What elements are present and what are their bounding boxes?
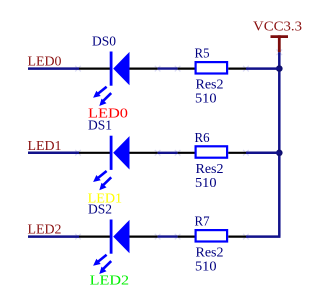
LED DS1 cathode bar (110, 136, 113, 170)
power symbol VCC3.3 (253, 20, 302, 53)
LED DS1 emission arrow 1 (93, 171, 107, 182)
svg-text:R7: R7 (195, 215, 210, 230)
svg-text:510: 510 (195, 260, 217, 275)
LED DS0 pin 1 (130, 67, 158, 69)
node junction row2 (276, 150, 283, 157)
resistor R7 pin 2 (178, 236, 195, 238)
wire row1 to bus (246, 67, 281, 70)
wire row3 to bus (246, 235, 281, 238)
resistor R7 (196, 230, 228, 241)
svg-text:Res2: Res2 (196, 78, 224, 93)
svg-text:R5: R5 (195, 47, 210, 62)
wire LED0 (28, 67, 79, 70)
resistor R6 pin 2 (178, 152, 195, 154)
LED DS2 emission arrow 1 (93, 255, 107, 266)
LED DS0 emission arrow 2 (99, 93, 111, 106)
svg-text:510: 510 (195, 92, 217, 107)
LED DS1 emission arrow 2 (99, 177, 111, 190)
wire vertical bus VCC (278, 52, 281, 236)
svg-text:Res2: Res2 (196, 246, 224, 261)
svg-text:Res2: Res2 (196, 162, 224, 177)
LED DS0 triangle (113, 52, 129, 85)
LED DS2 cathode bar (110, 220, 113, 254)
resistor R6 (196, 146, 228, 157)
LED DS2 pin 2 (79, 236, 110, 238)
node vertex markers (faint grid crosses) (75, 50, 282, 240)
LED DS1 pin 2 (79, 152, 110, 154)
svg-text:DS1: DS1 (88, 119, 112, 134)
LED DS2 emission arrow 2 (99, 261, 111, 274)
LED DS0 emission arrow 1 (93, 87, 107, 98)
wire LED2 to R7 (158, 235, 178, 237)
wire LED0 to R5 (158, 67, 178, 69)
LED DS2 triangle (113, 220, 129, 253)
LED DS2 pin 1 (130, 236, 158, 238)
LED DS0 cathode bar (110, 52, 113, 86)
wire LED1 to R6 (158, 152, 178, 154)
wire LED1 (28, 152, 79, 155)
LED DS1 triangle (113, 136, 129, 169)
resistor R6 pin 1 (228, 152, 246, 154)
svg-text:DS2: DS2 (88, 202, 112, 217)
svg-text:510: 510 (195, 176, 217, 191)
node junction row1 (276, 65, 283, 72)
svg-text:DS0: DS0 (92, 34, 116, 49)
wire row2 to bus (246, 152, 281, 155)
svg-text:R6: R6 (195, 131, 210, 146)
LED DS1 pin 1 (130, 152, 158, 154)
svg-text:LED2: LED2 (90, 273, 130, 288)
resistor R5 pin 2 (178, 67, 195, 69)
LED DS0 pin 2 (79, 67, 110, 69)
resistor R5 pin 1 (228, 67, 246, 69)
wire LED2 (28, 235, 79, 238)
resistor R7 pin 1 (228, 236, 246, 238)
resistor R5 (196, 62, 228, 73)
svg-text:VCC3.3: VCC3.3 (253, 20, 302, 35)
